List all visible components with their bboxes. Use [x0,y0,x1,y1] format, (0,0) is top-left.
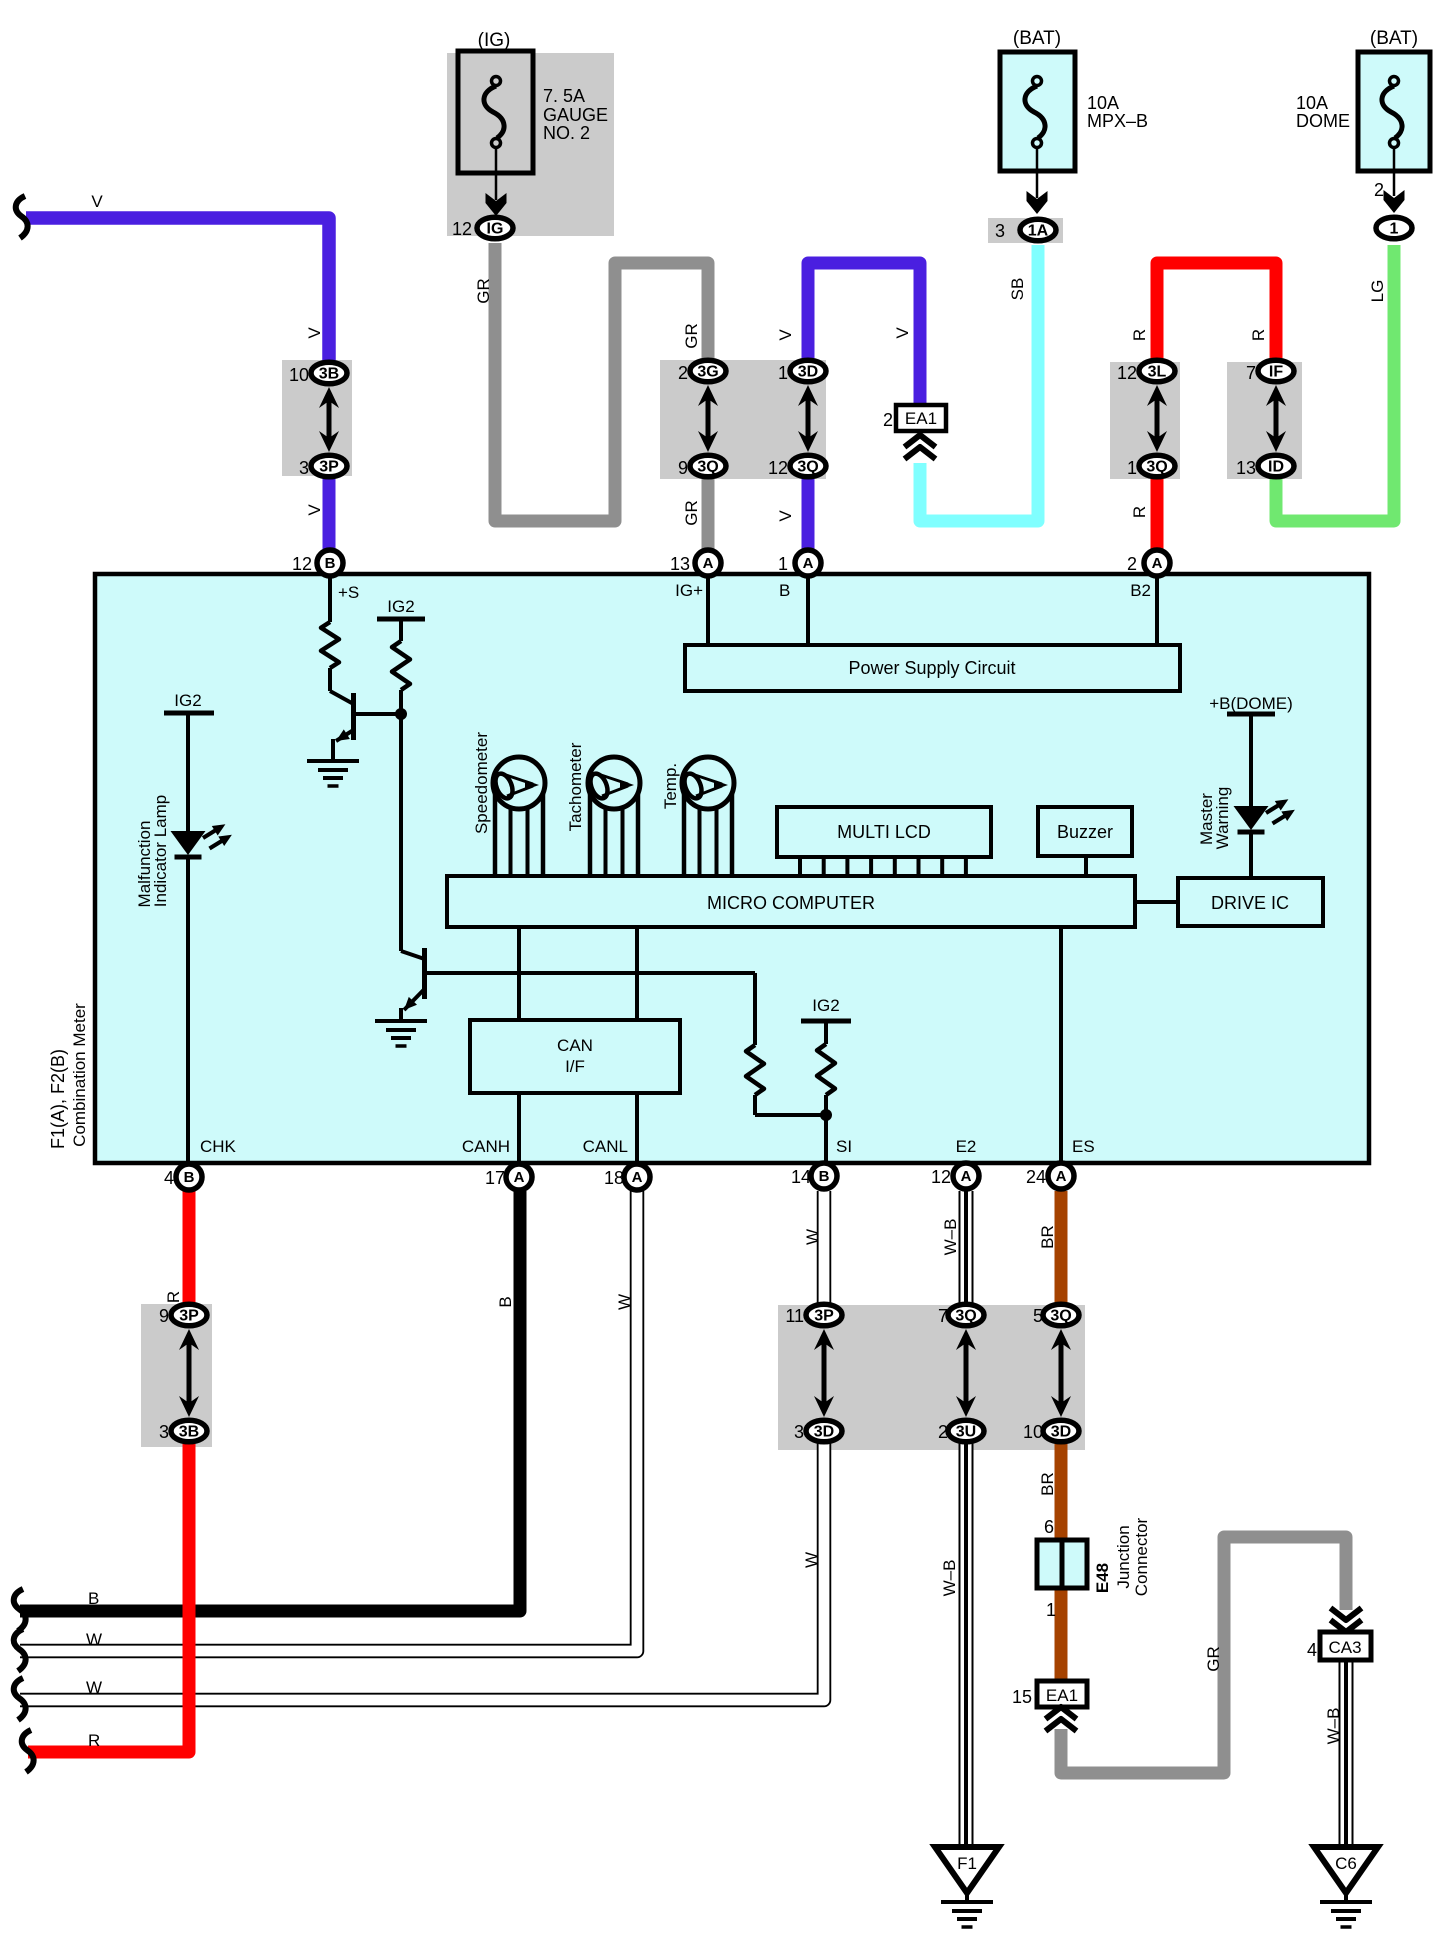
svg-text:W–B: W–B [1324,1708,1343,1745]
svg-text:3D: 3D [798,364,818,381]
svg-text:B2: B2 [1130,581,1151,600]
svg-text:MICRO COMPUTER: MICRO COMPUTER [707,893,875,913]
svg-text:IG+: IG+ [675,581,703,600]
svg-text:3P: 3P [814,1308,834,1325]
svg-text:W–B: W–B [941,1219,960,1256]
svg-text:NO. 2: NO. 2 [543,123,590,143]
svg-text:11: 11 [785,1306,804,1326]
svg-text:+S: +S [338,583,359,602]
svg-text:4: 4 [164,1168,174,1188]
svg-text:BR: BR [1038,1472,1057,1496]
svg-text:A: A [514,1169,525,1186]
svg-text:1: 1 [778,363,788,383]
svg-text:12: 12 [452,219,472,239]
svg-text:GR: GR [1204,1646,1223,1672]
svg-text:DRIVE IC: DRIVE IC [1211,893,1289,913]
svg-text:Buzzer: Buzzer [1057,822,1113,842]
svg-text:2: 2 [883,410,893,430]
svg-text:Junction: Junction [1114,1525,1133,1588]
svg-text:BR: BR [1038,1225,1057,1249]
svg-text:V: V [305,327,324,339]
svg-text:Combination Meter: Combination Meter [70,1003,89,1147]
svg-text:13: 13 [670,554,690,574]
svg-text:GR: GR [682,323,701,349]
svg-text:R: R [88,1731,100,1750]
svg-text:3U: 3U [956,1424,976,1441]
svg-text:10A: 10A [1296,93,1328,113]
svg-text:3Q: 3Q [1146,459,1167,476]
svg-text:3B: 3B [179,1424,199,1441]
svg-text:A: A [1152,555,1163,572]
svg-text:Indicator Lamp: Indicator Lamp [151,795,170,907]
svg-text:12: 12 [931,1167,951,1187]
svg-text:9: 9 [678,458,688,478]
svg-text:R: R [1249,329,1268,341]
svg-text:W–B: W–B [940,1560,959,1597]
svg-text:3D: 3D [1051,1424,1071,1441]
svg-text:V: V [91,192,103,211]
svg-text:2: 2 [1127,554,1137,574]
svg-text:E2: E2 [956,1137,977,1156]
svg-text:B: B [88,1589,99,1608]
svg-text:V: V [893,327,912,339]
svg-text:CA3: CA3 [1328,1638,1361,1657]
svg-text:3: 3 [159,1422,169,1442]
svg-text:W: W [802,1552,821,1568]
svg-text:Temp.: Temp. [661,763,680,809]
svg-text:18: 18 [604,1168,624,1188]
svg-text:MPX–B: MPX–B [1087,111,1148,131]
svg-text:1A: 1A [1028,223,1049,240]
svg-text:(BAT): (BAT) [1013,28,1061,49]
svg-text:V: V [305,504,324,516]
svg-text:CHK: CHK [200,1137,237,1156]
svg-text:1: 1 [1127,458,1137,478]
svg-text:MULTI LCD: MULTI LCD [837,822,931,842]
svg-text:7. 5A: 7. 5A [543,86,585,106]
svg-text:3: 3 [995,221,1005,241]
svg-text:4: 4 [1307,1640,1317,1660]
svg-text:W: W [615,1294,634,1310]
svg-text:E48: E48 [1093,1563,1112,1593]
svg-text:R: R [164,1291,183,1303]
svg-text:DOME: DOME [1296,111,1350,131]
svg-text:EA1: EA1 [905,409,937,428]
svg-text:F1(A), F2(B): F1(A), F2(B) [48,1049,68,1149]
svg-text:14: 14 [791,1167,811,1187]
svg-text:+B(DOME): +B(DOME) [1209,694,1293,713]
svg-text:C6: C6 [1335,1854,1357,1873]
svg-text:I/F: I/F [565,1057,585,1076]
svg-text:Warning: Warning [1213,787,1232,850]
svg-text:IG2: IG2 [812,996,839,1015]
svg-text:R: R [1130,506,1149,518]
svg-text:Speedometer: Speedometer [472,732,491,834]
svg-text:3G: 3G [697,364,718,381]
svg-text:Power Supply Circuit: Power Supply Circuit [848,658,1015,678]
svg-text:CANL: CANL [583,1137,628,1156]
svg-text:2: 2 [678,363,688,383]
svg-text:1: 1 [1390,221,1399,238]
svg-text:15: 15 [1012,1687,1032,1707]
svg-text:3Q: 3Q [797,459,818,476]
svg-text:A: A [803,555,814,572]
svg-text:9: 9 [159,1306,169,1326]
svg-text:12: 12 [1117,363,1137,383]
svg-text:CANH: CANH [462,1137,510,1156]
svg-text:12: 12 [768,458,788,478]
svg-text:W: W [803,1229,822,1245]
svg-text:B: B [496,1296,515,1307]
svg-text:IG: IG [487,221,504,238]
svg-text:3Q: 3Q [1050,1308,1071,1325]
svg-text:1: 1 [778,554,788,574]
svg-text:2: 2 [1374,180,1384,200]
svg-text:A: A [961,1168,972,1185]
svg-text:3P: 3P [319,459,339,476]
svg-text:3: 3 [794,1422,804,1442]
svg-text:(IG): (IG) [478,30,511,51]
svg-text:6: 6 [1044,1517,1054,1537]
svg-text:IF: IF [1269,364,1283,381]
svg-text:B: B [184,1169,195,1186]
svg-text:EA1: EA1 [1046,1686,1078,1705]
svg-text:5: 5 [1033,1306,1043,1326]
svg-text:B: B [325,555,336,572]
svg-text:3P: 3P [179,1308,199,1325]
svg-text:V: V [776,329,795,341]
svg-text:10: 10 [289,365,309,385]
svg-text:IG2: IG2 [174,691,201,710]
svg-text:ES: ES [1072,1137,1095,1156]
svg-text:3Q: 3Q [697,459,718,476]
svg-text:17: 17 [485,1168,505,1188]
svg-text:A: A [703,555,714,572]
svg-text:GAUGE: GAUGE [543,105,608,125]
svg-text:2: 2 [938,1422,948,1442]
svg-text:12: 12 [292,554,312,574]
svg-text:24: 24 [1026,1167,1046,1187]
svg-text:B: B [819,1168,830,1185]
svg-text:F1: F1 [957,1854,977,1873]
svg-text:10A: 10A [1087,93,1119,113]
svg-text:3D: 3D [814,1424,834,1441]
svg-text:Tachometer: Tachometer [566,742,585,831]
svg-text:(BAT): (BAT) [1370,28,1418,49]
svg-text:3Q: 3Q [955,1308,976,1325]
svg-text:B: B [779,581,790,600]
svg-text:GR: GR [682,500,701,526]
svg-text:SI: SI [836,1137,852,1156]
svg-text:R: R [1130,329,1149,341]
svg-text:W: W [86,1630,102,1649]
svg-text:10: 10 [1023,1422,1043,1442]
svg-text:1: 1 [1046,1600,1056,1620]
svg-text:13: 13 [1236,458,1256,478]
svg-text:SB: SB [1008,278,1027,301]
svg-text:3L: 3L [1148,364,1167,381]
svg-text:3: 3 [299,458,309,478]
svg-text:3B: 3B [319,366,339,383]
svg-text:CAN: CAN [557,1036,593,1055]
svg-text:A: A [1056,1168,1067,1185]
svg-text:GR: GR [474,278,493,304]
svg-text:IG2: IG2 [387,597,414,616]
svg-text:7: 7 [1246,363,1256,383]
svg-text:W: W [86,1678,102,1697]
svg-text:7: 7 [938,1306,948,1326]
svg-text:A: A [632,1169,643,1186]
svg-text:LG: LG [1368,280,1387,303]
svg-text:ID: ID [1268,459,1284,476]
svg-text:Connector: Connector [1132,1517,1151,1596]
svg-text:V: V [776,510,795,522]
